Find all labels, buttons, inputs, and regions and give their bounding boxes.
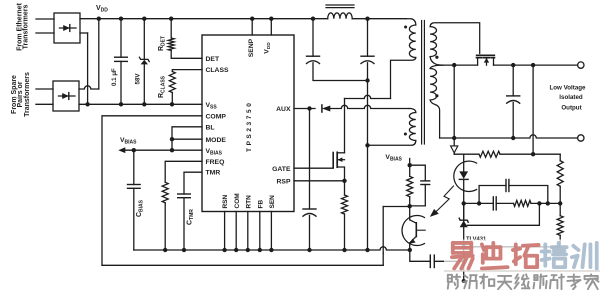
svg-text:COMP: COMP (206, 113, 227, 120)
svg-text:CLASS: CLASS (206, 67, 230, 74)
svg-text:AUX: AUX (276, 106, 291, 113)
svg-text:Transformers: Transformers (24, 72, 31, 117)
svg-text:DET: DET (206, 56, 220, 63)
svg-text:TMR: TMR (206, 170, 221, 177)
svg-text:Isolated: Isolated (559, 94, 583, 101)
svg-text:Output: Output (561, 105, 581, 112)
svg-text:FB: FB (257, 200, 264, 209)
svg-text:T P S 2 3 7 5 0: T P S 2 3 7 5 0 (246, 103, 253, 152)
svg-text:BL: BL (206, 124, 215, 131)
svg-text:GATE: GATE (272, 166, 291, 173)
svg-text:SENP: SENP (248, 38, 255, 57)
svg-text:RTN: RTN (245, 195, 252, 209)
svg-text:FREQ: FREQ (206, 159, 225, 166)
svg-text:MODE: MODE (206, 137, 227, 144)
svg-text:Transformers: Transformers (22, 5, 29, 50)
svg-text:COM: COM (234, 193, 241, 208)
svg-text:0.1 µF: 0.1 µF (111, 68, 118, 86)
svg-text:SEN: SEN (269, 195, 276, 209)
svg-text:Low Voltage: Low Voltage (550, 85, 587, 92)
svg-text:58V: 58V (135, 73, 142, 85)
svg-text:RSP: RSP (277, 178, 291, 185)
svg-text:RSN: RSN (222, 194, 229, 208)
